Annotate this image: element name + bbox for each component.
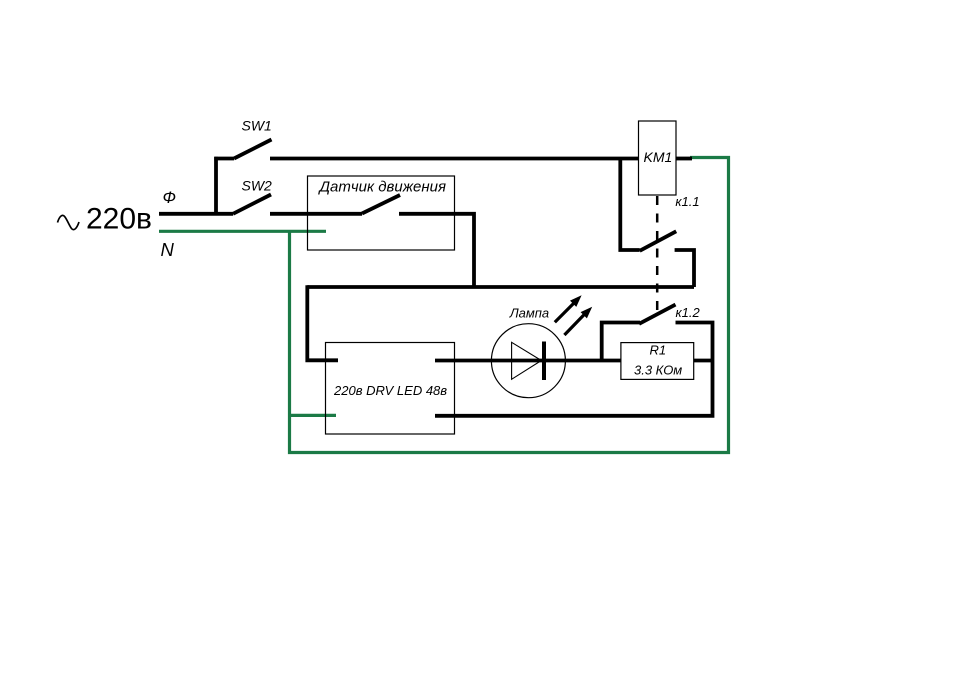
svg-text:220в DRV LED 48в: 220в DRV LED 48в [333,383,447,398]
svg-text:220в: 220в [86,203,152,236]
svg-text:N: N [161,239,175,260]
svg-text:к1.2: к1.2 [676,305,701,320]
svg-text:SW2: SW2 [242,177,273,193]
svg-text:R1: R1 [650,342,667,357]
svg-text:Датчик движения: Датчик движения [318,179,447,196]
svg-text:к1.1: к1.1 [675,194,699,209]
svg-text:Ф: Ф [163,188,177,207]
svg-text:Лампа: Лампа [509,305,549,320]
svg-text:KM1: KM1 [644,149,673,165]
svg-text:3.3 КОм: 3.3 КОм [634,363,682,378]
svg-text:SW1: SW1 [242,118,272,134]
